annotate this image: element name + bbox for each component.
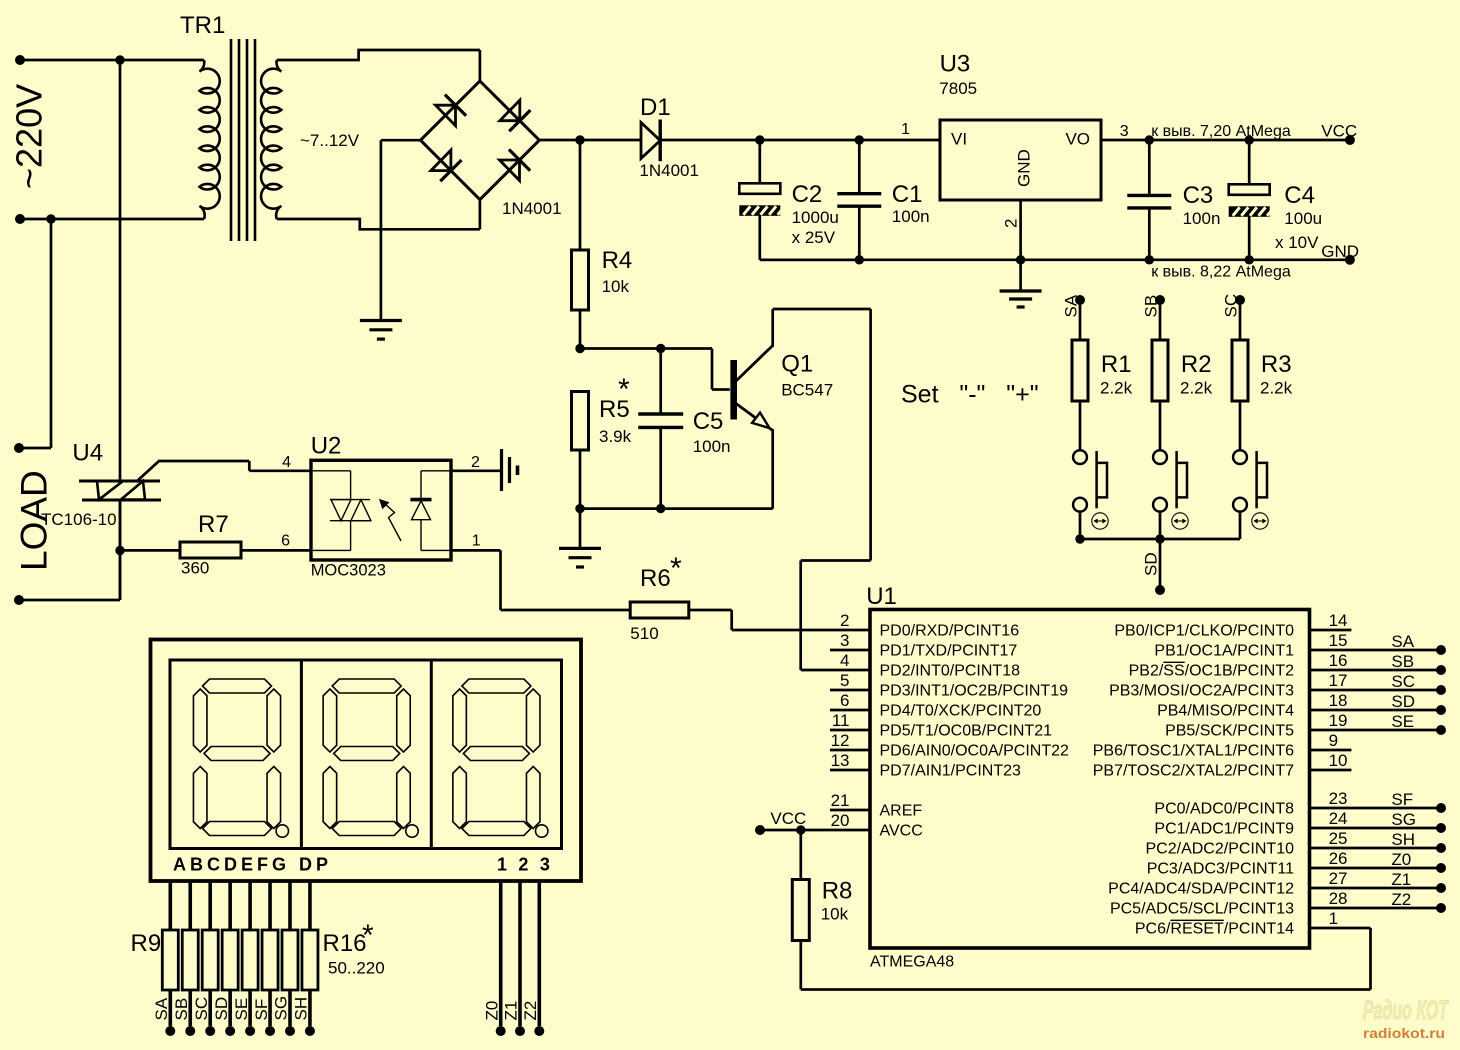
node ~220V line-2 terminal — [15, 214, 25, 224]
label GND — [1321, 242, 1359, 261]
svg-text:PD7/AIN1/PCINT23: PD7/AIN1/PCINT23 — [880, 763, 1021, 780]
label SF (display) — [252, 999, 271, 1021]
wire pin 23 to SF — [1310, 807, 1442, 810]
display digit 1 — [193, 679, 288, 837]
svg-text:3: 3 — [1120, 123, 1129, 140]
wire GND rail — [760, 258, 1350, 261]
label SD (display) — [212, 997, 231, 1021]
wire U2 pin1 to R6 — [451, 550, 630, 610]
label AREF — [880, 803, 923, 820]
svg-text:1: 1 — [472, 533, 481, 550]
bridge rectifier diamond — [421, 81, 540, 200]
node SD terminal (display) — [225, 1026, 235, 1036]
label R16 star — [362, 919, 374, 952]
label PC1/ADC1/PCINT9 — [1154, 821, 1294, 838]
node VCC terminal (AVCC) — [755, 825, 765, 835]
svg-text:D1: D1 — [640, 94, 671, 121]
wire load branch vertical — [19, 219, 51, 448]
junction C3 gnd — [1145, 255, 1154, 264]
label R2 — [1181, 351, 1212, 378]
wire display segment pin 3 — [208, 880, 212, 930]
svg-text:Радио КОТ: Радио КОТ — [1363, 995, 1449, 1025]
wire R10 bottom — [188, 990, 192, 1026]
label SD — [1142, 552, 1161, 576]
label pin 10 — [1329, 751, 1348, 770]
label pin 19 — [1329, 711, 1348, 730]
label ~220V — [9, 84, 50, 189]
junction C4 tap — [1245, 135, 1254, 144]
node SH terminal (display) — [305, 1026, 315, 1036]
svg-text:PB5/SCK/PCINT5: PB5/SCK/PCINT5 — [1165, 723, 1294, 740]
node SF terminal (U1) — [1436, 803, 1446, 813]
wire display digit pin Z1 — [518, 880, 522, 1026]
display digit 2 — [323, 679, 418, 837]
wire pin 26 to Z0 — [1310, 867, 1442, 870]
svg-text:GND: GND — [1015, 149, 1034, 187]
svg-text:24: 24 — [1329, 809, 1348, 828]
wire R5 gnd stub — [579, 509, 582, 549]
label R7 — [198, 511, 229, 538]
wire display segment pin 1 — [169, 880, 173, 930]
label pin 2 — [840, 611, 849, 630]
label PB7/TOSC2/XTAL2/PCINT7 — [1093, 763, 1294, 780]
node SG terminal (display) — [285, 1026, 295, 1036]
svg-text:U3: U3 — [940, 51, 971, 78]
node SB terminal — [1155, 295, 1165, 305]
triac U4 — [79, 481, 161, 500]
node LOAD terminal upper — [14, 443, 24, 453]
svg-text:SG: SG — [272, 996, 291, 1021]
ground below R5 — [559, 548, 601, 567]
wire secondary top — [277, 49, 480, 82]
optocoupler U2 box — [311, 460, 451, 560]
display cell divider 1 — [300, 660, 303, 849]
node SE terminal (display) — [245, 1026, 255, 1036]
junction C5 bottom — [656, 504, 665, 513]
label R3 value 2.2k — [1260, 379, 1293, 398]
svg-text:Z1: Z1 — [502, 1001, 521, 1021]
svg-text:*: * — [670, 552, 682, 585]
junction R8 tap — [796, 825, 805, 834]
node Z2 terminal (display) — [534, 1026, 544, 1036]
display cell divider 2 — [430, 660, 433, 849]
svg-text:2.2k: 2.2k — [1100, 379, 1133, 398]
node Z1 terminal (display) — [515, 1026, 525, 1036]
svg-text:~7..12V: ~7..12V — [300, 131, 360, 150]
svg-text:MOC3023: MOC3023 — [311, 561, 386, 579]
label U2 — [311, 433, 342, 460]
label VCC — [1321, 122, 1357, 141]
wire pin 24 to SG — [1310, 827, 1442, 830]
label C5 — [693, 408, 724, 435]
svg-text:PD2/INT0/PCINT18: PD2/INT0/PCINT18 — [880, 663, 1021, 680]
svg-text:SB: SB — [1142, 295, 1161, 318]
label U3 pin 2 — [1002, 219, 1021, 228]
svg-text:Z1: Z1 — [1391, 870, 1411, 889]
label PB4/MISO/PCINT4 — [1157, 703, 1294, 720]
svg-text:SC: SC — [1391, 672, 1415, 691]
svg-text:100n: 100n — [1183, 209, 1221, 228]
wire pin1 reset loop — [801, 928, 1371, 990]
label U2 MOC3023 — [311, 561, 386, 579]
svg-text:26: 26 — [1329, 849, 1348, 868]
wire R15 bottom — [288, 990, 292, 1026]
capacitor C3 — [1127, 195, 1171, 208]
svg-text:VCC: VCC — [770, 809, 806, 828]
svg-text:GND: GND — [1321, 242, 1359, 261]
label R4 — [602, 247, 633, 274]
wire R12 bottom — [228, 990, 232, 1026]
wire base node horizontal — [580, 349, 730, 390]
svg-text:R8: R8 — [822, 877, 853, 904]
label pin 20 — [831, 811, 850, 830]
switch S1 actuator symbol — [1092, 513, 1108, 529]
label R7 value 360 — [181, 558, 209, 577]
svg-text:Z2: Z2 — [1391, 890, 1411, 909]
label pin 23 — [1329, 789, 1348, 808]
svg-text:SG: SG — [1391, 810, 1416, 829]
switch S3 contact upper — [1233, 450, 1247, 464]
transformer TR1 core — [231, 39, 255, 241]
label PD7/AIN1/PCINT23 — [880, 763, 1021, 780]
label SA (display) — [152, 997, 171, 1020]
regulator U3 box — [940, 120, 1101, 200]
svg-text:2: 2 — [840, 611, 849, 630]
svg-text:2.2k: 2.2k — [1180, 379, 1213, 398]
node SE terminal (U1) — [1436, 725, 1446, 735]
junction R5 top — [575, 344, 584, 353]
resistor R13 — [242, 930, 258, 990]
svg-text:100n: 100n — [892, 207, 930, 226]
label PB3/MOSI/OC2A/PCINT3 — [1109, 683, 1294, 700]
label pin 4 — [840, 651, 849, 670]
label PD6/AIN0/OC0A/PCINT22 — [880, 743, 1070, 760]
label SH (display) — [292, 997, 311, 1021]
switch S2 plunger — [1177, 451, 1187, 508]
switch S1 plunger — [1097, 451, 1107, 508]
wire R4 bottom — [579, 310, 582, 349]
pin 21 stub AREF — [830, 809, 870, 812]
svg-text:U1: U1 — [866, 583, 897, 610]
label PD3/INT1/OC2B/PCINT19 — [880, 683, 1069, 700]
label R5 value 3.9k — [599, 427, 632, 446]
wire SA lower — [1079, 512, 1082, 539]
wire R14 bottom — [268, 990, 272, 1026]
svg-text:VO: VO — [1065, 130, 1090, 149]
svg-text:20: 20 — [831, 811, 850, 830]
label pin 17 — [1329, 671, 1348, 690]
label PB0/ICP1/CLKO/PCINT0 — [1114, 623, 1294, 640]
wire R6 to U1 pin2 — [689, 610, 870, 630]
label PC0/ADC0/PCINT8 — [1154, 801, 1294, 818]
wire R1 bottom — [1079, 401, 1082, 450]
svg-text:SC: SC — [192, 997, 211, 1021]
wire display segment pin 6 — [268, 880, 272, 930]
svg-text:PD6/AIN0/OC0A/PCINT22: PD6/AIN0/OC0A/PCINT22 — [880, 743, 1070, 760]
label pin 24 — [1329, 809, 1348, 828]
switch S1 contact upper — [1073, 450, 1087, 464]
label R16 — [323, 930, 367, 957]
capacitor C4 — [1229, 184, 1274, 217]
svg-text:PB0/ICP1/CLKO/PCINT0: PB0/ICP1/CLKO/PCINT0 — [1114, 623, 1294, 640]
label PD0/RXD/PCINT16 — [880, 623, 1020, 640]
wire button common rail — [1080, 538, 1240, 541]
resistor R15 — [282, 930, 298, 990]
svg-text:C5: C5 — [693, 408, 724, 435]
svg-text:PC4/ADC4/SDA/PCINT12: PC4/ADC4/SDA/PCINT12 — [1108, 881, 1294, 898]
node SC terminal — [1235, 295, 1245, 305]
resistor R9 — [162, 930, 178, 990]
junction C3 tap — [1145, 135, 1154, 144]
label Z2 (display) — [521, 1001, 540, 1021]
wire R1 top — [1079, 300, 1082, 340]
svg-text:SF: SF — [1391, 790, 1413, 809]
wire C1 bottom — [858, 206, 861, 260]
switch S3 contact lower — [1233, 498, 1247, 512]
wire display digit pin Z0 — [499, 880, 503, 1026]
label pin 18 — [1329, 691, 1348, 710]
wire R7 left — [120, 549, 180, 552]
resistor R1 — [1072, 340, 1088, 401]
svg-text:x 25V: x 25V — [792, 228, 836, 247]
label U3 VI — [951, 130, 967, 149]
label display pins 123 — [497, 855, 553, 875]
wire display segment pin 5 — [248, 880, 252, 930]
ground below U3 — [1000, 291, 1042, 307]
node ~220V line-1 terminal — [15, 55, 25, 65]
node SB terminal (U1) — [1436, 665, 1446, 675]
label C3 — [1183, 182, 1214, 209]
pin 10 stub — [1310, 769, 1352, 772]
label pin 9 — [1329, 731, 1338, 750]
svg-text:10k: 10k — [602, 277, 630, 296]
node SC terminal (U1) — [1436, 685, 1446, 695]
label C4 value x 10V — [1275, 233, 1319, 252]
display inner box — [170, 660, 562, 849]
label Z1 (display) — [502, 1001, 521, 1021]
svg-text:к выв. 7,20 AtMega: к выв. 7,20 AtMega — [1151, 123, 1291, 140]
wire SD drop — [1159, 539, 1162, 590]
svg-text:PD0/RXD/PCINT16: PD0/RXD/PCINT16 — [880, 623, 1020, 640]
svg-text:1: 1 — [901, 121, 910, 138]
label Z1 (U1) — [1391, 870, 1411, 889]
ground below bridge — [360, 321, 402, 340]
wire C2 bottom — [760, 215, 860, 260]
svg-text:*: * — [618, 373, 630, 406]
label U3 7805 — [939, 79, 977, 98]
label k vyv 8,22 AtMega — [1151, 264, 1291, 281]
wire R3 top — [1239, 300, 1242, 340]
label SA (U1) — [1391, 632, 1414, 651]
transformer TR1 secondary winding — [261, 60, 281, 219]
junction C1 tap — [855, 135, 864, 144]
svg-text:TC106-10: TC106-10 — [41, 510, 117, 529]
svg-text:PC1/ADC1/PCINT9: PC1/ADC1/PCINT9 — [1154, 821, 1294, 838]
node GND terminal — [1345, 255, 1355, 265]
wire U3 gnd stub — [1019, 260, 1022, 291]
svg-text:R16: R16 — [323, 930, 367, 957]
svg-text:*: * — [362, 919, 374, 952]
wire R8 top — [799, 830, 802, 880]
wire LOAD lower to triac — [19, 500, 120, 600]
wire 220V top — [20, 59, 204, 62]
node SD terminal (U1) — [1436, 705, 1446, 715]
label PC3/ADC3/PCINT11 — [1147, 861, 1294, 878]
wire bridge minus to ground — [381, 140, 421, 320]
label U2 pin 6 — [281, 533, 290, 550]
node SA terminal (display) — [165, 1026, 175, 1036]
svg-text:R7: R7 — [198, 511, 229, 538]
label R9 — [131, 930, 162, 957]
bridge diode top-right — [500, 100, 531, 131]
svg-text:SD: SD — [1391, 692, 1415, 711]
wire R3 bottom — [1239, 401, 1242, 450]
svg-text:PC2/ADC2/PCINT10: PC2/ADC2/PCINT10 — [1146, 841, 1295, 858]
label PB2/SS/OC1B/PCINT2 — [1129, 663, 1294, 680]
U2 internal LED — [410, 471, 451, 551]
svg-text:к выв. 8,22 AtMega: к выв. 8,22 AtMega — [1151, 264, 1291, 281]
svg-text:SD: SD — [212, 997, 231, 1021]
pin 13 stub — [830, 769, 870, 772]
wire C4 bottom — [1248, 216, 1251, 260]
node SC terminal (display) — [205, 1026, 215, 1036]
label U3 — [940, 51, 971, 78]
label C1 — [892, 181, 923, 208]
node Z0 terminal (U1) — [1436, 863, 1446, 873]
node SA terminal — [1075, 295, 1085, 305]
svg-text:SA: SA — [1062, 294, 1081, 317]
label PC6/RESET/PCINT14 — [1135, 921, 1294, 938]
junction SA rail — [1075, 534, 1084, 543]
label SC (display) — [192, 997, 211, 1021]
svg-text:50..220: 50..220 — [328, 959, 385, 978]
wire pin 16 to SB — [1310, 669, 1442, 672]
svg-text:SB: SB — [172, 998, 191, 1021]
label R4 value 10k — [602, 277, 630, 296]
svg-text:360: 360 — [181, 558, 209, 577]
label R6 — [640, 565, 671, 592]
resistor R4 — [572, 250, 589, 310]
svg-text:ABCDEFG DP: ABCDEFG DP — [173, 855, 332, 875]
svg-text:U4: U4 — [72, 440, 103, 467]
wire R9 bottom — [169, 990, 173, 1026]
label U3 pin 1 — [901, 121, 910, 138]
label PC4/ADC4/SDA/PCINT12 — [1108, 881, 1294, 898]
svg-text:510: 510 — [630, 624, 658, 643]
wire secondary bottom — [277, 198, 480, 231]
svg-text:10k: 10k — [821, 904, 849, 923]
svg-text:4: 4 — [282, 454, 291, 471]
label pin 1 — [1329, 909, 1338, 928]
wire display segment pin 8 — [308, 880, 312, 930]
node Z1 terminal (U1) — [1436, 883, 1446, 893]
switch S2 actuator symbol — [1172, 513, 1188, 529]
svg-text:SB: SB — [1391, 652, 1414, 671]
wire emitter rail — [580, 507, 773, 510]
svg-text:PB6/TOSC1/XTAL1/PCINT6: PB6/TOSC1/XTAL1/PCINT6 — [1093, 743, 1294, 760]
svg-text:3: 3 — [840, 631, 849, 650]
wire C5 bottom lead — [659, 427, 662, 508]
svg-text:12: 12 — [831, 731, 850, 750]
label R6 star — [670, 552, 682, 585]
label ~7..12V — [300, 131, 360, 150]
svg-text:PD3/INT1/OC2B/PCINT19: PD3/INT1/OC2B/PCINT19 — [880, 683, 1069, 700]
wire Q1 collector to U1 pin4 — [773, 309, 871, 670]
label C4 — [1284, 182, 1315, 209]
label pin 27 — [1329, 869, 1348, 888]
svg-text:10: 10 — [1329, 751, 1348, 770]
svg-text:PC3/ADC3/PCINT11: PC3/ADC3/PCINT11 — [1147, 861, 1294, 878]
svg-text:27: 27 — [1329, 869, 1348, 888]
svg-text:R1: R1 — [1101, 351, 1132, 378]
label pin 12 — [831, 731, 850, 750]
wire rectified rail — [539, 139, 641, 142]
svg-text:SF: SF — [252, 999, 271, 1021]
pin 12 stub — [830, 749, 870, 752]
label C4 value 100u — [1284, 209, 1322, 228]
wire display segment pin 4 — [228, 880, 232, 930]
node Z2 terminal (U1) — [1436, 903, 1446, 913]
bridge diode bottom-right — [500, 149, 531, 180]
label SC (U1) — [1391, 672, 1415, 691]
label D1 1N4001 — [639, 161, 699, 180]
switch S3 plunger — [1257, 451, 1267, 508]
svg-text:PD4/T0/XCK/PCINT20: PD4/T0/XCK/PCINT20 — [880, 703, 1042, 720]
wire display digit pin Z2 — [537, 880, 541, 1026]
label k vyv 7,20 AtMega — [1151, 123, 1291, 140]
bridge diode top-left — [436, 95, 467, 126]
label LOAD — [14, 470, 55, 571]
pin 14 stub — [1310, 629, 1352, 632]
label PD5/T1/OC0B/PCINT21 — [880, 723, 1053, 740]
wire SB lower — [1159, 512, 1162, 539]
label SE (U1) — [1391, 712, 1414, 731]
resistor R10 — [182, 930, 198, 990]
resistor R11 — [202, 930, 218, 990]
resistor R14 — [262, 930, 278, 990]
svg-text:PB2/SS/OC1B/PCINT2: PB2/SS/OC1B/PCINT2 — [1129, 663, 1294, 680]
wire triac to R7 node — [119, 500, 122, 600]
bridge diode bottom-left — [431, 150, 462, 181]
svg-text:5: 5 — [840, 671, 849, 690]
label C2 value x 25V — [792, 228, 836, 247]
svg-text:~220V: ~220V — [9, 84, 50, 189]
svg-text:C4: C4 — [1284, 182, 1315, 209]
wire triac gate — [136, 461, 311, 482]
label pin 26 — [1329, 849, 1348, 868]
svg-text:x 10V: x 10V — [1275, 233, 1319, 252]
label Q1 BC547 — [781, 381, 833, 400]
wire SC lower — [1239, 512, 1242, 539]
resistor R8 — [792, 880, 809, 941]
wire display segment pin 7 — [288, 880, 292, 930]
svg-text:6: 6 — [281, 533, 290, 550]
wire R2 bottom — [1159, 401, 1162, 450]
svg-text:PC6/RESET/PCINT14: PC6/RESET/PCINT14 — [1135, 921, 1294, 938]
display outer box — [151, 640, 582, 882]
label R8 value 10k — [821, 904, 849, 923]
label pin 28 — [1329, 889, 1348, 908]
label AVCC — [880, 823, 923, 840]
display digit 3 — [453, 679, 548, 837]
label SH (U1) — [1391, 830, 1415, 849]
label PC2/ADC2/PCINT10 — [1146, 841, 1295, 858]
wire 220V bottom — [20, 218, 204, 221]
svg-text:PB7/TOSC2/XTAL2/PCINT7: PB7/TOSC2/XTAL2/PCINT7 — [1093, 763, 1294, 780]
svg-text:18: 18 — [1329, 691, 1348, 710]
label SG (display) — [272, 996, 291, 1021]
label U3 VO — [1065, 130, 1090, 149]
